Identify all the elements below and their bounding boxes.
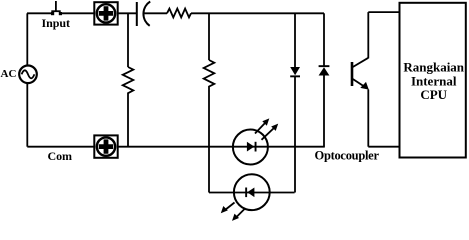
svg-text:Com: Com	[48, 149, 73, 163]
svg-text:Input: Input	[42, 16, 71, 30]
svg-text:Optocoupler: Optocoupler	[315, 149, 380, 163]
svg-text:Rangkaian: Rangkaian	[403, 59, 464, 74]
svg-text:CPU: CPU	[420, 87, 447, 102]
svg-text:AC: AC	[1, 68, 17, 80]
